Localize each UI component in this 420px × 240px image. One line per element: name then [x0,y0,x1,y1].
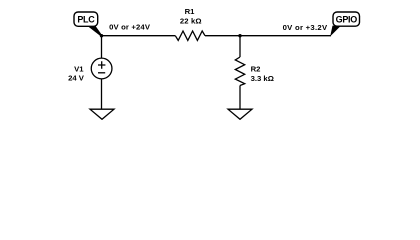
flag PLC pointer [87,26,102,36]
wire: vertical from mid node down to R2 [239,36,241,57]
V1 plus sign [98,61,105,68]
wire: vertical from PLC node down to V1 top [101,36,103,59]
wire: main horizontal net, left segment from PLC node to R1 [102,35,176,37]
ground under R2 [228,109,252,119]
wire: vertical from V1 bottom to ground [101,79,103,110]
svg-text:R1: R1 [185,7,196,16]
svg-text:22 kΩ: 22 kΩ [180,16,202,25]
svg-text:V1: V1 [74,64,84,73]
ground under V1 [90,109,114,119]
resistor R2 (3.3 k, vertical zigzag) [235,57,244,86]
svg-text:24 V: 24 V [68,74,85,83]
wire: vertical from R2 bottom to ground [239,86,241,110]
svg-text:0V or +24V: 0V or +24V [109,23,151,32]
svg-text:3.3 kΩ: 3.3 kΩ [251,74,274,83]
node A: junction dot at PLC tap [100,34,103,37]
svg-text:GPIO: GPIO [336,15,358,25]
voltage source V1 (24 V) body [91,58,112,79]
flag GPIO box [333,12,360,26]
flag GPIO pointer [330,26,341,37]
node B: junction dot at R1/R2 tap [238,34,241,37]
flag PLC box [74,12,98,26]
svg-text:R2: R2 [251,65,261,74]
svg-text:PLC: PLC [77,15,95,25]
V1 minus sign [98,72,105,74]
wire: main horizontal net, right segment from R1 to GPIO pointer [205,35,331,37]
resistor R1 (22 k, horizontal zigzag) [175,31,205,40]
svg-text:0V or +3.2V: 0V or +3.2V [283,23,328,32]
